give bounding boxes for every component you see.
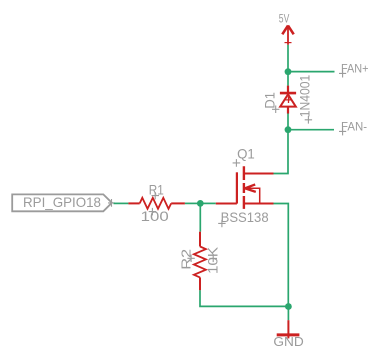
ground GND (277, 320, 300, 338)
wire 5V to FAN+ junction (287, 45, 289, 72)
wire R1 to gate junction (185, 202, 200, 204)
node FAN- junction (285, 126, 292, 133)
svg-text:RPI_GPIO18: RPI_GPIO18 (23, 195, 101, 210)
value 100 (141, 208, 169, 224)
diode D1 (280, 86, 296, 114)
flag RPI_GPIO18 (12, 194, 115, 211)
resistor R2 (194, 232, 206, 291)
wire D1 anode to FAN- junction (287, 114, 289, 130)
node FAN+ junction (285, 68, 292, 75)
wire FAN+ stub (288, 71, 335, 73)
value BSS138 (218, 209, 269, 227)
wire FAN- stub (288, 129, 334, 131)
svg-text:FAN+: FAN+ (341, 62, 369, 76)
wire junction down to R2 (199, 203, 201, 231)
net label FAN+ (339, 62, 369, 78)
net label FAN- (339, 120, 367, 136)
transistor Q1 BSS138 (216, 166, 274, 209)
svg-text:1N4001: 1N4001 (297, 75, 313, 118)
wire FAN- junction down to Q1 drain (274, 130, 289, 174)
wire Q1 source down to GND junction (274, 204, 289, 307)
svg-text:FAN-: FAN- (341, 120, 367, 134)
wire flag to R1 (114, 202, 129, 204)
svg-text:GND: GND (273, 334, 303, 349)
wire junction to Q1 gate (200, 202, 215, 204)
node GND junction (285, 303, 292, 310)
power symbol 5V P1 (282, 25, 293, 45)
svg-text:100: 100 (141, 208, 169, 224)
wire junction to D1 cathode (287, 72, 289, 86)
resistor R1 (128, 198, 185, 209)
value 10K (rotated) (206, 247, 221, 274)
label R2 (rotated) (178, 249, 194, 270)
wire R2 bottom to GND junction (200, 290, 288, 306)
svg-text:D1: D1 (262, 92, 278, 109)
label D1 (rotated) (262, 92, 280, 113)
node gate junction (197, 200, 204, 207)
svg-text:BSS138: BSS138 (221, 209, 269, 225)
wire junction to GND pin (287, 307, 289, 321)
label R1 (149, 182, 164, 200)
value 1N4001 (rotated) (297, 75, 313, 124)
label Q1 (233, 146, 255, 167)
svg-text:5V: 5V (279, 12, 290, 26)
svg-text:Q1: Q1 (237, 146, 255, 162)
